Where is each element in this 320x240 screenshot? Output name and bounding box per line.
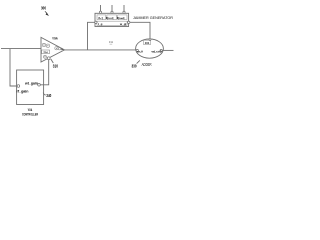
svg-text:θ₁:|: θ₁:|: [98, 16, 103, 20]
svg-text:ADDER: ADDER: [142, 62, 152, 67]
svg-text:101: 101: [145, 41, 150, 45]
svg-text:wt_gain: wt_gain: [24, 81, 38, 85]
svg-text:w_g|: w_g|: [119, 22, 127, 26]
svg-text:w(,ωt): w(,ωt): [150, 49, 161, 53]
svg-text:310: 310: [53, 63, 59, 68]
svg-text:t_g: t_g: [98, 22, 103, 26]
svg-text:311: 311: [109, 40, 114, 44]
svg-text:θ|ω₁t|: θ|ω₁t|: [106, 16, 114, 20]
svg-text:×ω: ×ω: [43, 50, 48, 54]
svg-text:340: 340: [46, 93, 51, 98]
svg-text:CONTROLLER: CONTROLLER: [22, 113, 38, 117]
svg-text:θ|ωₙt|: θ|ωₙt|: [117, 16, 125, 20]
svg-text:rf_gain: rf_gain: [17, 90, 29, 94]
svg-text:VGA: VGA: [52, 37, 58, 41]
svg-text:sn,θ: sn,θ: [137, 49, 143, 53]
svg-text:330: 330: [132, 63, 137, 68]
svg-text:300: 300: [41, 6, 46, 11]
svg-text:JAMMER GENERATOR: JAMMER GENERATOR: [133, 15, 173, 20]
